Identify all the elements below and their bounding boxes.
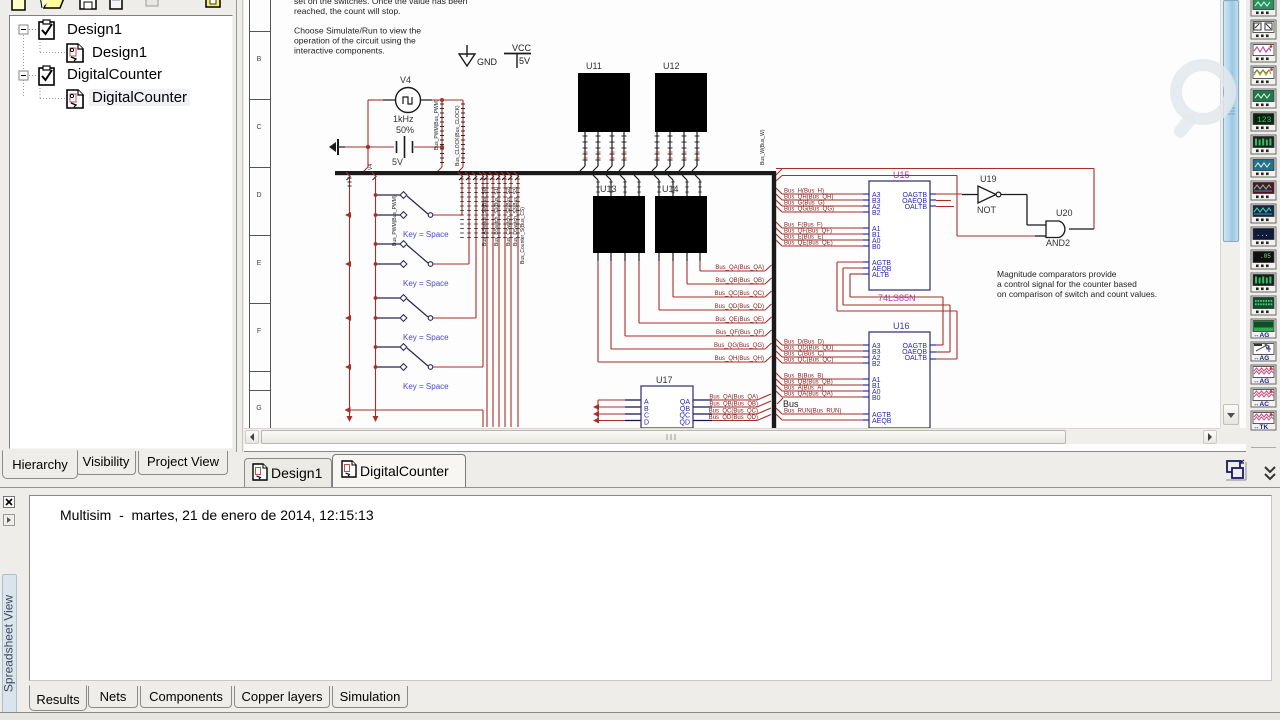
svg-text:Bus: Bus [783,399,799,409]
svg-text:↔AG: ↔AG [1253,378,1269,385]
svg-text:V4: V4 [400,75,411,85]
svg-text:Bus_RUN(Bus_RUN): Bus_RUN(Bus_RUN) [784,409,841,415]
svg-text:U13: U13 [600,184,617,194]
svg-text:Bus_QC(Bus_QC): Bus_QC(Bus_QC) [784,358,833,364]
svg-text:V4: V4 [368,164,374,170]
svg-text:B2: B2 [872,210,881,217]
svg-text:↔AC: ↔AC [1253,401,1269,408]
svg-text:Bus_PWM(Bus_PWM): Bus_PWM(Bus_PWM) [392,195,398,246]
svg-text:Magnitude comparators provide: Magnitude comparators provide [997,269,1117,279]
svg-text:Bus_QC(Bus_QC): Bus_QC(Bus_QC) [709,409,758,415]
svg-text:Choose Simulate/Run to view th: Choose Simulate/Run to view the [294,26,421,36]
svg-text:QD: QD [680,419,691,426]
svg-text:VCC: VCC [512,43,532,53]
svg-text:Bus_QC(Bus_QC): Bus_QC(Bus_QC) [715,291,764,297]
svg-text:ALTB: ALTB [872,272,889,279]
svg-text:↔AG: ↔AG [1253,355,1269,362]
svg-text:1kHz: 1kHz [393,114,414,124]
svg-text:U20: U20 [1056,208,1073,218]
svg-text:50%: 50% [396,125,414,135]
svg-text:operation of the circuit using: operation of the circuit using the [294,36,416,46]
svg-text:Bus_QD(Bus_QD): Bus_QD(Bus_QD) [709,415,758,421]
svg-text:5V: 5V [392,157,403,167]
svg-text:5V: 5V [519,56,530,66]
svg-text:Key = Space: Key = Space [403,279,449,288]
svg-text:Bus_QA(Bus_QA): Bus_QA(Bus_QA) [709,395,758,401]
svg-text:interactive components.: interactive components. [294,46,385,56]
svg-text:Bus_QH(Bus_QH): Bus_QH(Bus_QH) [715,356,764,362]
svg-text:Bus_PWM(Bus_PWM): Bus_PWM(Bus_PWM) [434,99,440,150]
svg-text:OALTB: OALTB [905,204,928,211]
svg-text:Bus_QB(Bus_QB): Bus_QB(Bus_QB) [715,278,764,284]
svg-text:NOT: NOT [977,205,997,215]
svg-text:D: D [644,419,649,426]
svg-text:U14: U14 [662,184,679,194]
svg-text:B0: B0 [872,244,881,251]
svg-text:↔TK: ↔TK [1253,424,1268,431]
svg-text:Bus_Counter_S(Bus_CS): Bus_Counter_S(Bus_CS) [520,207,526,264]
svg-text:Bus_QG(Bus_QG): Bus_QG(Bus_QG) [714,343,764,349]
svg-text:Bus_QB(Bus_QB): Bus_QB(Bus_QB) [709,402,758,408]
svg-text:Bus_QD(Bus_QD): Bus_QD(Bus_QD) [715,304,764,310]
svg-text:U11: U11 [586,61,602,71]
svg-text:U19: U19 [980,174,997,184]
svg-text:↔AG: ↔AG [1253,332,1269,339]
svg-text:U17: U17 [656,375,673,385]
svg-text:74LS85N: 74LS85N [878,293,916,303]
svg-text:Key = Space: Key = Space [403,382,449,391]
svg-text:Bus_ASwitch_S0(Bus_S0): Bus_ASwitch_S0(Bus_S0) [482,186,488,246]
svg-text:.05: .05 [1260,253,1271,260]
svg-text:AEQB: AEQB [872,418,892,425]
svg-text:reached, the count will stop.: reached, the count will stop. [294,6,401,16]
svg-text:U16: U16 [893,321,910,331]
svg-text:Bus_CSwitch_S2(Bus_S2): Bus_CSwitch_S2(Bus_S2) [506,186,512,246]
svg-text:Bus_QE(Bus_QE): Bus_QE(Bus_QE) [715,317,764,323]
svg-text:Bus_QE(Bus_QE): Bus_QE(Bus_QE) [784,241,833,247]
svg-text:OALTB: OALTB [905,355,928,362]
svg-text:Bus_W(Bus_W): Bus_W(Bus_W) [760,129,766,165]
svg-text:Key = Space: Key = Space [403,333,449,342]
svg-text:on comparison of switch and co: on comparison of switch and count values… [997,289,1157,299]
svg-text:Bus_BSwitch_S1(Bus_S1): Bus_BSwitch_S1(Bus_S1) [494,186,500,246]
svg-text:Bus_QG(Bus_QG): Bus_QG(Bus_QG) [784,207,834,213]
svg-text:AND2: AND2 [1046,238,1070,248]
svg-text:Bus_DSwitch_S3(Bus_S3): Bus_DSwitch_S3(Bus_S3) [513,186,519,246]
svg-text:GND: GND [477,57,498,67]
svg-text:Bus_QA(Bus_QA): Bus_QA(Bus_QA) [715,265,764,271]
svg-text:set on the switches. Once the: set on the switches. Once the value has … [294,0,468,6]
svg-text:Bus_QA(Bus_QA): Bus_QA(Bus_QA) [784,392,833,398]
svg-text:123: 123 [1257,116,1272,125]
svg-text:Key = Space: Key = Space [403,230,449,239]
svg-text:U12: U12 [663,61,680,71]
svg-text:Bus_QF(Bus_QF): Bus_QF(Bus_QF) [716,330,764,336]
svg-text:Bus_CLOCK(Bus_CLOCK): Bus_CLOCK(Bus_CLOCK) [455,105,461,166]
svg-text:...: ... [1256,231,1269,239]
svg-text:a control signal for the count: a control signal for the counter based [997,279,1137,289]
svg-text:B0: B0 [872,395,881,402]
svg-text:B2: B2 [872,361,881,368]
